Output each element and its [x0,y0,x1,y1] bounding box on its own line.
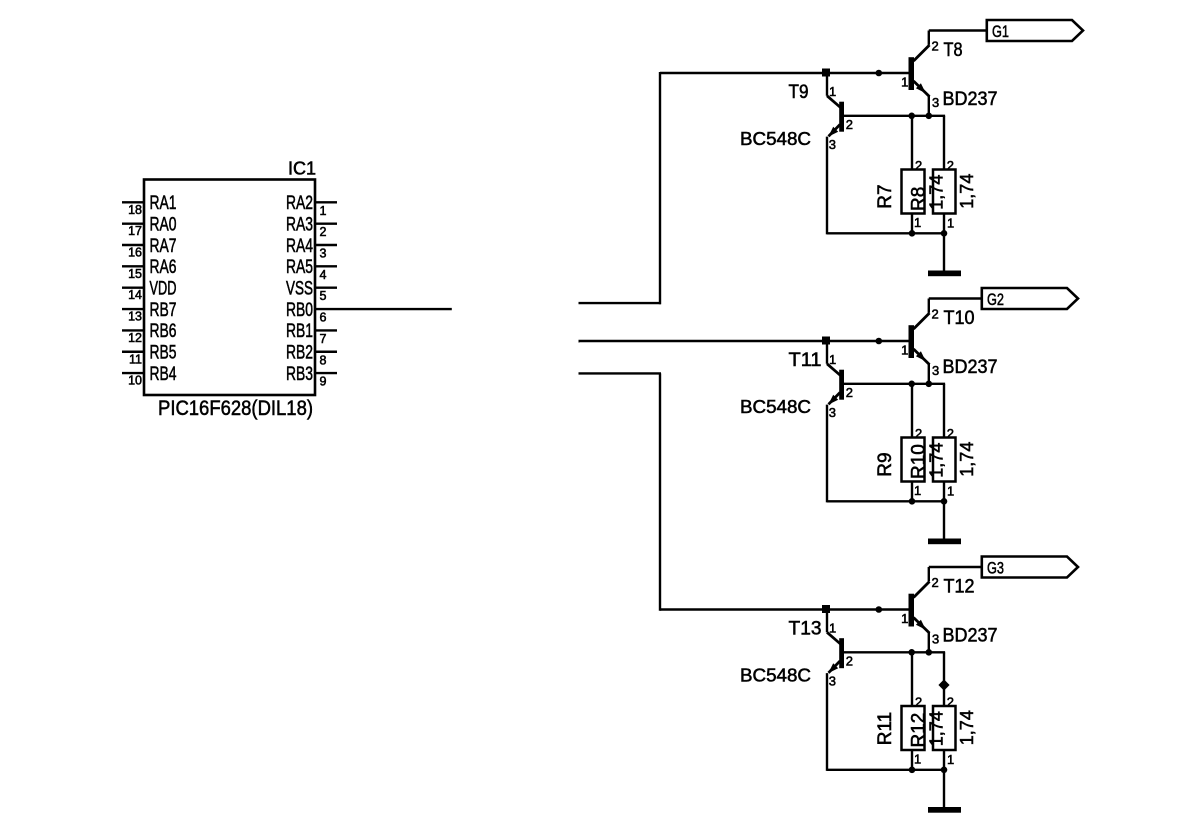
pin 4 RA5 (right) [286,257,337,282]
pin 7 RB1 (right) [286,321,337,346]
svg-text:RB2: RB2 [286,343,313,364]
svg-text:1: 1 [829,352,836,367]
svg-text:2: 2 [932,307,939,322]
svg-text:BD237: BD237 [943,357,998,378]
IC IC1 PIC16F628(DIL18) [144,159,316,421]
transistor T9 BC548C [740,75,853,152]
node junction dot rail/ground stub [941,767,948,774]
node junction at T13 base tap [822,605,830,613]
svg-text:VSS: VSS [286,279,313,300]
svg-text:1,74: 1,74 [927,443,947,478]
svg-text:1: 1 [829,620,836,635]
svg-text:6: 6 [320,311,327,325]
node junction dot rail/R-left bottom [909,767,916,774]
wire feed lower (to G3 stage) [579,373,662,610]
pin 2 RA3 (right) [286,214,337,239]
pin 12 RB6 (left) [122,321,177,345]
svg-text:RA1: RA1 [150,193,177,214]
svg-text:2: 2 [846,654,853,669]
svg-text:3: 3 [320,247,327,261]
pin 8 RB2 (right) [286,343,337,368]
svg-text:18: 18 [128,203,142,217]
wire T8 emitter to rail [928,96,930,116]
transistor T12 BD237 [901,575,997,647]
svg-text:PIC16F628(DIL18): PIC16F628(DIL18) [158,397,313,420]
svg-text:T13: T13 [789,619,822,640]
svg-text:5: 5 [320,289,327,303]
svg-text:RA2: RA2 [286,193,313,214]
svg-text:7: 7 [320,332,327,346]
node junction dot rail/ground stub [941,498,948,505]
svg-text:R9: R9 [875,452,896,476]
wire top rail to T13 and T12 bases [660,608,909,610]
svg-text:1: 1 [914,483,921,498]
wire T13 collector rail to resistors and T12 emitter [844,651,945,653]
wire T12 collector to output flag [929,567,982,581]
svg-text:10: 10 [128,374,142,388]
svg-text:T8: T8 [944,40,963,61]
pin 1 RA2 (right) [286,193,337,218]
svg-text:3: 3 [829,674,836,689]
pin 16 RA7 (left) [122,236,177,260]
wire top rail to T11 and T10 bases [579,340,909,342]
pin 9 RB3 (right) [286,364,337,389]
svg-text:T11: T11 [789,350,822,371]
svg-text:RA5: RA5 [286,257,313,278]
wire T10 emitter to rail [928,364,930,384]
transistor T13 BC548C [740,612,853,689]
svg-text:BC548C: BC548C [740,666,811,686]
svg-text:2: 2 [915,158,922,173]
pin 17 RA0 (left) [122,214,177,238]
svg-text:1: 1 [947,216,954,231]
pin 15 RA6 (left) [122,257,177,281]
wire T10 collector to output flag [929,299,982,313]
node junction at T11 base tap [822,337,830,345]
node junction diamond on right resistor top lead [938,679,949,690]
wire bottom rail [827,500,945,502]
node junction dot rail/R-left [908,113,915,120]
svg-text:3: 3 [932,95,939,110]
wire T12 emitter to rail [928,633,930,653]
pin 14 VDD (left) [122,279,177,303]
svg-text:1,74: 1,74 [957,442,977,477]
svg-text:R12: R12 [909,713,930,748]
wire T13 emitter down to bottom rail [826,673,828,771]
svg-text:16: 16 [128,246,142,260]
resistor R8 1,74 [909,116,978,235]
ground symbol [928,539,961,545]
wire T11 emitter down to bottom rail [826,405,828,503]
ground symbol [928,807,961,813]
svg-text:1: 1 [914,215,921,230]
svg-text:RB6: RB6 [150,321,177,342]
svg-text:2: 2 [915,426,922,441]
svg-text:2: 2 [947,158,954,173]
pin 18 RA1 (left) [122,193,177,217]
svg-text:RA6: RA6 [150,257,177,278]
node junction dot rail/T8 emitter [926,113,933,120]
pin 3 RA4 (right) [286,236,337,261]
svg-text:RA3: RA3 [286,214,313,235]
svg-text:8: 8 [320,353,327,367]
wire T8 collector to output flag [929,31,987,45]
node junction dot rail/R-left [908,649,915,656]
svg-text:11: 11 [129,352,142,366]
node junction dot on base wire [876,338,883,345]
svg-text:BC548C: BC548C [740,397,811,417]
svg-text:RA4: RA4 [286,236,313,257]
svg-text:2: 2 [320,225,327,239]
svg-text:2: 2 [932,575,939,590]
resistor R11 1,74 [875,652,947,771]
svg-text:15: 15 [128,267,142,281]
svg-text:1: 1 [320,204,327,218]
svg-text:3: 3 [932,363,939,378]
svg-text:R10: R10 [909,444,930,479]
svg-text:3: 3 [932,632,939,647]
svg-text:4: 4 [320,268,327,282]
svg-text:1: 1 [901,611,908,626]
pin 13 RB7 (left) [122,300,177,324]
node junction at T9 base tap [822,69,830,77]
svg-text:RB4: RB4 [150,364,177,385]
svg-text:G2: G2 [987,290,1004,309]
svg-text:RB3: RB3 [286,364,313,385]
node junction dot on base wire [876,606,883,613]
svg-text:RA0: RA0 [150,214,177,235]
svg-text:14: 14 [128,288,142,302]
svg-text:13: 13 [128,310,142,324]
svg-text:2: 2 [846,385,853,400]
ground symbol [928,271,961,277]
svg-text:RB0: RB0 [286,300,313,321]
svg-text:1: 1 [901,74,908,89]
svg-text:1: 1 [947,484,954,499]
resistor R10 1,74 [909,384,978,503]
wire T9 collector rail to resistors and T8 emitter [844,115,945,117]
svg-text:VDD: VDD [150,279,177,300]
output flag G1 [987,20,1083,41]
svg-text:R8: R8 [909,187,930,211]
svg-text:RB7: RB7 [150,300,177,321]
output flag G3 [982,557,1078,578]
svg-text:IC1: IC1 [288,159,316,179]
node junction dot rail/R-left bottom [909,230,916,237]
svg-text:17: 17 [128,224,142,238]
svg-text:1: 1 [947,752,954,767]
pin 11 RB5 (left) [122,343,177,367]
wire bottom rail [827,769,945,771]
resistor R7 1,74 [875,116,947,235]
node junction dot rail/T10 emitter [926,381,933,388]
svg-text:T10: T10 [944,308,975,329]
node junction dot rail/ground stub [941,230,948,237]
svg-text:R7: R7 [875,184,896,208]
svg-text:1: 1 [914,752,921,767]
svg-text:T12: T12 [944,577,975,598]
svg-text:1,74: 1,74 [927,711,947,746]
svg-text:3: 3 [829,137,836,152]
svg-text:3: 3 [829,405,836,420]
resistor R12 1,74 [909,652,978,771]
svg-text:1,74: 1,74 [927,175,947,210]
svg-text:1: 1 [829,84,836,99]
svg-text:9: 9 [320,375,327,389]
output flag G2 [982,288,1078,309]
svg-text:2: 2 [846,117,853,132]
pin 10 RB4 (left) [122,364,177,388]
svg-text:1,74: 1,74 [957,710,977,745]
node junction dot rail/R-left [908,381,915,388]
wire T11 collector rail to resistors and T10 emitter [844,383,945,385]
node junction dot on base wire [876,70,883,77]
svg-text:12: 12 [128,331,142,345]
svg-text:R11: R11 [875,712,896,745]
transistor T11 BC548C [740,343,853,420]
svg-text:BD237: BD237 [943,89,998,110]
node junction dot rail/T12 emitter [926,649,933,656]
wire bottom rail [827,232,945,234]
svg-text:2: 2 [947,695,954,710]
resistor R9 1,74 [875,384,947,503]
svg-text:G1: G1 [992,22,1009,41]
svg-text:BC548C: BC548C [740,129,811,149]
node junction dot rail/R-left bottom [909,498,916,505]
wire feed middle (to G2 stage) [579,340,580,342]
svg-text:BD237: BD237 [943,626,998,647]
svg-text:RB1: RB1 [286,321,313,342]
svg-text:RA7: RA7 [150,236,177,257]
svg-text:RB5: RB5 [150,343,177,364]
transistor T10 BD237 [901,307,997,379]
svg-text:2: 2 [915,695,922,710]
svg-text:T9: T9 [789,82,809,103]
svg-text:1: 1 [901,342,908,357]
wire T9 emitter down to bottom rail [826,137,828,235]
pin 6 RB0 (right) [286,300,452,325]
svg-text:1,74: 1,74 [957,174,977,209]
svg-text:G3: G3 [987,559,1004,578]
wire to ground [943,233,945,271]
wire to ground [943,501,945,539]
svg-text:2: 2 [947,426,954,441]
wire to ground [943,770,945,808]
wire from RB0 to stage feeds (upper, to G1 stage) [579,72,662,304]
svg-text:2: 2 [932,39,939,54]
wire top rail to T9 and T8 bases [660,72,909,74]
transistor T8 BD237 [901,39,997,111]
pin 5 VSS (right) [286,279,337,304]
